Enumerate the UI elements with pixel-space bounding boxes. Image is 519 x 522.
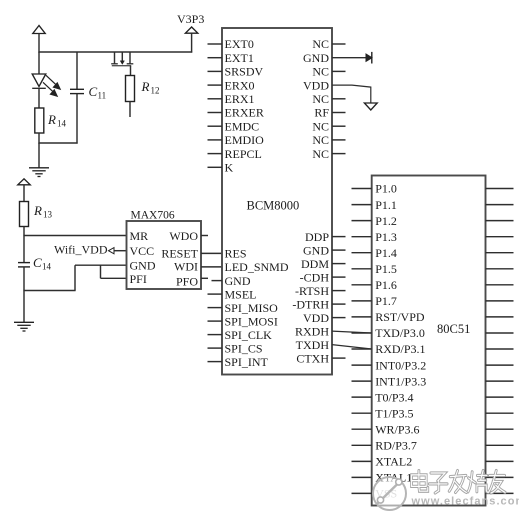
svg-text:V3P3: V3P3 bbox=[177, 12, 204, 26]
pin NC1 (BCM8000 right) bbox=[312, 37, 345, 51]
pin DDP (BCM8000 right) bbox=[305, 230, 346, 244]
pin 1 right stub (80C51) bbox=[486, 188, 514, 190]
pin ERX1 (BCM8000) bbox=[208, 92, 255, 106]
capacitor C14 bbox=[18, 255, 52, 272]
svg-text:T0/P3.4: T0/P3.4 bbox=[375, 390, 413, 404]
pin TXD/P3.0 (80C51) bbox=[352, 326, 425, 340]
pin SRSDV (BCM8000) bbox=[208, 65, 264, 79]
svg-text:LED_SNMD: LED_SNMD bbox=[225, 260, 289, 274]
pin 16 right stub (80C51) bbox=[486, 428, 514, 430]
pin NC7 (BCM8000 right) bbox=[312, 119, 345, 133]
svg-text:P1.2: P1.2 bbox=[375, 214, 397, 228]
pin SPI_MOSI (BCM8000) bbox=[208, 314, 278, 328]
pin WR/P3.6 (80C51) bbox=[352, 422, 420, 436]
capacitor C11 bbox=[70, 52, 106, 144]
svg-text:WR/P3.6: WR/P3.6 bbox=[375, 422, 419, 436]
op-amp U1 BCM8000 bbox=[222, 28, 332, 375]
node V3P3 bbox=[177, 12, 204, 53]
pin P1.0 (80C51) bbox=[352, 182, 397, 196]
pin P1.1 (80C51) bbox=[352, 198, 397, 212]
pin LED_SNMD (BCM8000) bbox=[225, 260, 289, 274]
pin SPI_INT (BCM8000) bbox=[208, 355, 269, 369]
svg-text:SPI_MISO: SPI_MISO bbox=[225, 301, 279, 315]
wire MR net bbox=[23, 235, 126, 237]
svg-text:GND: GND bbox=[225, 274, 251, 288]
pin P1.3 (80C51) bbox=[352, 230, 397, 244]
pin P1.2 (80C51) bbox=[352, 214, 397, 228]
svg-text:NC: NC bbox=[312, 92, 329, 106]
svg-text:SPI_CS: SPI_CS bbox=[225, 341, 263, 355]
svg-text:14: 14 bbox=[57, 119, 67, 129]
pin 6 right stub (80C51) bbox=[486, 268, 514, 270]
pin NC9 (BCM8000 right) bbox=[312, 147, 345, 161]
svg-text:13: 13 bbox=[43, 210, 53, 220]
svg-text:P1.0: P1.0 bbox=[375, 182, 397, 196]
pin INT1/P3.3 (80C51) bbox=[352, 374, 427, 388]
svg-text:Wifi_VDD: Wifi_VDD bbox=[54, 243, 108, 257]
watermark text dianzifashaoyou bbox=[412, 471, 506, 493]
pin NC5 (BCM8000 right) bbox=[312, 92, 345, 106]
pin SPI_CS (BCM8000) bbox=[208, 341, 263, 355]
svg-text:NC: NC bbox=[312, 147, 329, 161]
ground (C14 branch) bbox=[14, 322, 34, 331]
svg-text:T1/P3.5: T1/P3.5 bbox=[375, 406, 413, 420]
pin -RTSH (BCM8000 right) bbox=[295, 284, 345, 298]
pin P1.5 (80C51) bbox=[352, 262, 397, 276]
svg-text:-RTSH: -RTSH bbox=[295, 284, 329, 298]
svg-text:PFO: PFO bbox=[176, 275, 198, 289]
svg-text:VDD: VDD bbox=[303, 78, 329, 92]
pin REPCL (BCM8000) bbox=[208, 147, 262, 161]
op-amp U3 80C51 MCU bbox=[372, 176, 486, 506]
pin PFO (MAX706) bbox=[176, 275, 208, 289]
svg-text:DDP: DDP bbox=[305, 230, 329, 244]
pin RXD/P3.1 (80C51) bbox=[352, 342, 426, 356]
pin 15 right stub (80C51) bbox=[486, 412, 514, 414]
pin VDD (BCM8000 right) bbox=[303, 78, 377, 110]
svg-text:www.elecfans.com: www.elecfans.com bbox=[411, 496, 519, 508]
svg-text:RD/P3.7: RD/P3.7 bbox=[375, 439, 417, 453]
svg-text:SPI_CLK: SPI_CLK bbox=[225, 328, 273, 342]
pin 17 right stub (80C51) bbox=[486, 444, 514, 446]
pin GND (MAX706) bbox=[130, 259, 156, 273]
pin WDI (MAX706) / wire to LED_SNMD bbox=[174, 260, 222, 274]
svg-text:ERXER: ERXER bbox=[225, 106, 264, 120]
pin EXT0 (BCM8000) bbox=[208, 37, 254, 51]
svg-text:INT0/P3.2: INT0/P3.2 bbox=[375, 358, 426, 372]
pin -DTRH (BCM8000 right) bbox=[292, 297, 345, 311]
svg-text:-DTRH: -DTRH bbox=[292, 297, 329, 311]
pin NC8 (BCM8000 right) bbox=[312, 133, 345, 147]
pin 9 right stub (80C51) bbox=[486, 316, 514, 318]
pin RST/VPD (80C51) bbox=[352, 310, 425, 324]
svg-text:ERX1: ERX1 bbox=[225, 92, 255, 106]
svg-text:NC: NC bbox=[312, 119, 329, 133]
wire R14 to ground bbox=[38, 133, 77, 168]
pin RXDH (BCM8000 right) bbox=[295, 324, 372, 338]
pin INT0/P3.2 (80C51) bbox=[352, 358, 427, 372]
svg-text:14: 14 bbox=[42, 262, 52, 272]
svg-text:K: K bbox=[225, 161, 234, 175]
pin GND (BCM8000) bbox=[212, 274, 251, 288]
svg-text:EXT1: EXT1 bbox=[225, 51, 254, 65]
pin RD/P3.7 (80C51) bbox=[352, 439, 417, 453]
svg-text:C: C bbox=[33, 255, 42, 270]
pin GND (BCM8000 right) bbox=[303, 51, 372, 65]
svg-text:REPCL: REPCL bbox=[225, 147, 262, 161]
pin NC3 (BCM8000 right) bbox=[312, 65, 345, 79]
svg-text:11: 11 bbox=[98, 91, 107, 101]
power arrow top-left bbox=[33, 26, 45, 53]
pin 19 right stub (80C51) bbox=[486, 476, 514, 478]
svg-text:VCC: VCC bbox=[130, 244, 155, 258]
pin SPI_CLK (BCM8000) bbox=[208, 328, 273, 342]
LED D1 bbox=[32, 52, 60, 108]
pin EXT1 (BCM8000) bbox=[208, 51, 254, 65]
pin 7 right stub (80C51) bbox=[486, 284, 514, 286]
svg-text:EXT0: EXT0 bbox=[225, 37, 254, 51]
pin WDO (MAX706) bbox=[169, 229, 208, 243]
watermark logo circle bbox=[373, 477, 406, 510]
svg-text:RES: RES bbox=[225, 247, 247, 261]
svg-text:SPI_MOSI: SPI_MOSI bbox=[225, 314, 278, 328]
pin RES (BCM8000) bbox=[225, 247, 247, 261]
svg-text:INT1/P3.3: INT1/P3.3 bbox=[375, 374, 426, 388]
pin 20 right stub (80C51) bbox=[486, 492, 514, 494]
op-amp U2 MAX706 supervisor bbox=[127, 210, 202, 290]
pin 11 right stub (80C51) bbox=[486, 348, 514, 350]
svg-text:GND: GND bbox=[303, 243, 329, 257]
pin EMDIO (BCM8000) bbox=[208, 133, 265, 147]
svg-text:PFI: PFI bbox=[130, 272, 147, 286]
pin XTAL1 (80C51) bbox=[352, 471, 413, 485]
svg-text:C: C bbox=[89, 84, 98, 99]
pin 4 right stub (80C51) bbox=[486, 236, 514, 238]
pin T0/P3.4 (80C51) bbox=[352, 390, 414, 404]
svg-text:RST/VPD: RST/VPD bbox=[375, 310, 425, 324]
svg-text:80C51: 80C51 bbox=[437, 322, 470, 336]
svg-text:TXDH: TXDH bbox=[296, 338, 330, 352]
pin 8 right stub (80C51) bbox=[486, 300, 514, 302]
resistor R13 bbox=[20, 202, 53, 227]
pin CTXH (BCM8000 right) bbox=[296, 351, 345, 365]
pin ERX0 (BCM8000) bbox=[208, 78, 255, 92]
pin GND2 (BCM8000 right) bbox=[303, 243, 346, 257]
resistor R14 bbox=[35, 108, 67, 133]
pin P1.4 (80C51) bbox=[352, 246, 397, 260]
pin RESET (MAX706) / wire to RES bbox=[161, 247, 222, 261]
svg-text:P1.1: P1.1 bbox=[375, 198, 397, 212]
pin 2 right stub (80C51) bbox=[486, 204, 514, 206]
svg-text:NC: NC bbox=[312, 133, 329, 147]
svg-text:R: R bbox=[47, 112, 56, 127]
svg-text:-CDH: -CDH bbox=[300, 270, 330, 284]
svg-text:CTXH: CTXH bbox=[296, 351, 329, 365]
svg-text:WDI: WDI bbox=[174, 260, 198, 274]
pin MR (MAX706) bbox=[130, 229, 149, 243]
pin 10 right stub (80C51) bbox=[486, 332, 514, 334]
pin K (BCM8000) bbox=[208, 161, 234, 175]
wire GND net (MAX706 GND/PFI to rail) bbox=[23, 265, 126, 290]
svg-text:WDO: WDO bbox=[169, 229, 198, 243]
pin 14 right stub (80C51) bbox=[486, 396, 514, 398]
svg-text:BCM8000: BCM8000 bbox=[247, 199, 300, 213]
pin TXDH (BCM8000 right) bbox=[296, 338, 372, 352]
svg-text:R: R bbox=[141, 79, 150, 94]
pin MSEL (BCM8000) bbox=[208, 287, 257, 301]
pin VSS (80C51) bbox=[352, 487, 398, 501]
pin VDD2 (BCM8000 right) bbox=[303, 311, 346, 325]
svg-text:MR: MR bbox=[130, 229, 149, 243]
transistor Q1 (PMOS switch) bbox=[111, 52, 133, 76]
svg-text:ERX0: ERX0 bbox=[225, 78, 255, 92]
svg-text:NC: NC bbox=[312, 65, 329, 79]
svg-text:GND: GND bbox=[303, 51, 329, 65]
svg-text:12: 12 bbox=[151, 86, 160, 96]
resistor R12 bbox=[126, 76, 160, 102]
pin VCC (MAX706) bbox=[130, 244, 155, 258]
wire R13 down bbox=[23, 227, 25, 263]
pin ERXER (BCM8000) bbox=[208, 106, 264, 120]
svg-text:RF: RF bbox=[314, 106, 329, 120]
pin P1.6 (80C51) bbox=[352, 278, 397, 292]
svg-text:TXD/P3.0: TXD/P3.0 bbox=[375, 326, 425, 340]
svg-text:VDD: VDD bbox=[303, 311, 329, 325]
svg-text:P1.4: P1.4 bbox=[375, 246, 397, 260]
svg-text:RXD/P3.1: RXD/P3.1 bbox=[375, 342, 425, 356]
svg-text:DDM: DDM bbox=[301, 257, 329, 271]
svg-text:NC: NC bbox=[312, 37, 329, 51]
svg-text:P1.3: P1.3 bbox=[375, 230, 397, 244]
pin 12 right stub (80C51) bbox=[486, 364, 514, 366]
pin PFI (MAX706) bbox=[130, 272, 147, 286]
svg-text:P1.5: P1.5 bbox=[375, 262, 397, 276]
pin XTAL2 (80C51) bbox=[352, 455, 413, 469]
pin DDM (BCM8000 right) bbox=[301, 257, 346, 271]
pin SPI_MISO (BCM8000) bbox=[208, 301, 279, 315]
svg-text:SRSDV: SRSDV bbox=[225, 65, 264, 79]
pin P1.7 (80C51) bbox=[352, 294, 397, 308]
wire power rail bbox=[38, 51, 192, 53]
svg-text:R: R bbox=[33, 203, 42, 218]
svg-text:RESET: RESET bbox=[161, 247, 198, 261]
svg-text:MSEL: MSEL bbox=[225, 287, 257, 301]
wire C14 to ground bbox=[23, 267, 25, 322]
pin 5 right stub (80C51) bbox=[486, 252, 514, 254]
svg-text:XTAL2: XTAL2 bbox=[375, 455, 412, 469]
svg-text:EMDIO: EMDIO bbox=[225, 133, 265, 147]
pin 13 right stub (80C51) bbox=[486, 380, 514, 382]
pin RF (BCM8000 right) bbox=[314, 106, 345, 120]
pin 3 right stub (80C51) bbox=[486, 220, 514, 222]
svg-text:EMDC: EMDC bbox=[225, 119, 260, 133]
svg-text:P1.7: P1.7 bbox=[375, 294, 397, 308]
svg-text:GND: GND bbox=[130, 259, 156, 273]
ground (LED branch) bbox=[29, 168, 49, 177]
svg-text:P1.6: P1.6 bbox=[375, 278, 397, 292]
pin T1/P3.5 (80C51) bbox=[352, 406, 414, 420]
pin 18 right stub (80C51) bbox=[486, 460, 514, 462]
pin EMDC (BCM8000) bbox=[208, 119, 260, 133]
svg-text:MAX706: MAX706 bbox=[131, 210, 175, 222]
svg-text:SPI_INT: SPI_INT bbox=[225, 355, 269, 369]
power arrow (R13 branch) bbox=[18, 179, 30, 202]
pin -CDH (BCM8000 right) bbox=[300, 270, 346, 284]
svg-text:RXDH: RXDH bbox=[295, 324, 329, 338]
wire R12 stub bbox=[129, 102, 131, 118]
node Wifi_VDD bbox=[54, 243, 127, 257]
